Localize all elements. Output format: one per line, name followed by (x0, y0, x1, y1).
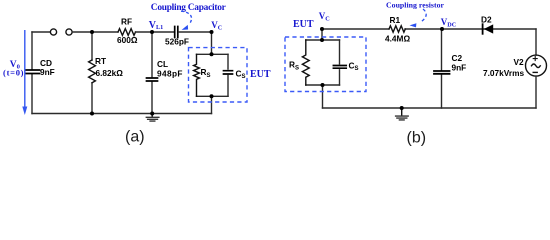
resistor Rs (b) (302, 40, 309, 85)
switch S1 (two open terminals) (50, 29, 56, 35)
svg-text:CL: CL (157, 59, 168, 69)
svg-text:526pF: 526pF (165, 37, 189, 47)
EUT(b) inner loop bottom (306, 84, 340, 86)
wire: RT branch vertical (91, 32, 93, 114)
capacitor C2 (434, 71, 450, 74)
svg-text:7.07kVrms: 7.07kVrms (483, 68, 524, 78)
capacitor Cs (b) (339, 40, 341, 85)
wire: (a) bottom rail (32, 113, 212, 115)
wire: (b) top rail (322, 28, 536, 30)
EUT dashed box (b) (285, 37, 366, 92)
node junction at RT top (90, 30, 94, 34)
capacitor CL (147, 78, 158, 81)
node ground junction (b) (400, 106, 404, 110)
svg-text:Coupling resistor: Coupling resistor (386, 1, 445, 10)
svg-text:6.82kΩ: 6.82kΩ (96, 68, 124, 78)
EUT dashed box (a) (189, 48, 248, 102)
node EUT(a) top junction (210, 52, 214, 56)
coupling resistor callout arrow (dashed) (422, 9, 427, 22)
V2 minus sign (533, 71, 537, 73)
wire: (a) top rail left segment to switch (32, 31, 50, 33)
V2 plus sign (533, 57, 537, 61)
wire: VC branch down to EUT (211, 32, 213, 54)
wire: coupling capacitor to VC (179, 31, 212, 33)
svg-text:RT: RT (95, 56, 106, 66)
svg-text:EUT: EUT (250, 69, 271, 80)
wire: V2 branch bottom (535, 76, 537, 108)
wire: RF to VL1 (136, 31, 153, 33)
capacitor CD (26, 70, 40, 74)
resistor Rs (a) (194, 54, 200, 96)
node VL1 junction (150, 30, 154, 34)
wire: Vc branch down (321, 29, 323, 40)
resistor RT (89, 60, 96, 83)
svg-text:(a): (a) (125, 129, 145, 146)
svg-text:V2: V2 (514, 57, 525, 67)
svg-text:C2: C2 (452, 53, 463, 63)
svg-text:948pF: 948pF (157, 69, 183, 79)
node EUT(a) bottom junction (210, 94, 214, 98)
wire: switch to node A (72, 31, 118, 33)
svg-text:600Ω: 600Ω (117, 35, 138, 45)
capacitor 526pF (coupling capacitor) (175, 27, 178, 38)
node ground junction (a) (150, 112, 154, 116)
capacitor Cs (a) (227, 54, 229, 96)
wire: V2 branch top (535, 29, 537, 55)
wire: EUT bottom down to bottom rail (211, 96, 213, 113)
svg-text:D2: D2 (481, 15, 492, 25)
node EUT(b) bottom junction (321, 83, 325, 87)
resistor RF (118, 29, 135, 36)
EUT(b) inner loop top (306, 39, 340, 41)
EUT inner loop bottom wire (197, 95, 229, 97)
node VDC junction (440, 27, 444, 31)
svg-text:R1: R1 (390, 15, 401, 25)
diode D2 (484, 24, 493, 33)
EUT inner loop top wire (197, 53, 229, 55)
svg-text:Coupling Capacitor: Coupling Capacitor (151, 3, 226, 13)
svg-text:9nF: 9nF (40, 67, 55, 77)
ground (b) (401, 108, 403, 115)
svg-text:RF: RF (121, 17, 132, 27)
svg-text:4.4MΩ: 4.4MΩ (385, 34, 410, 44)
wire: CL branch vertical (151, 32, 153, 114)
wire: (a) left vertical rail (31, 32, 33, 114)
node EUT(b) top junction (320, 38, 324, 42)
resistor R1 (389, 26, 405, 32)
node RT bottom junction (90, 112, 94, 116)
wire: C2 branch (441, 29, 443, 108)
svg-text:EUT: EUT (293, 19, 314, 30)
ground (a) (151, 114, 153, 118)
V2 sine symbol (532, 64, 541, 68)
wire: VL1 to coupling capacitor (152, 31, 174, 33)
wire: (b) bottom rail (323, 107, 537, 109)
source V2 circle (526, 55, 547, 76)
svg-text:(t=0): (t=0) (3, 67, 24, 77)
node VC junction (210, 30, 214, 34)
coupling capacitor callout arrow (dashed) (181, 11, 192, 24)
V0 source arrow (blue) (22, 30, 27, 115)
svg-text:(b): (b) (407, 130, 427, 147)
node VC(b) junction (320, 27, 324, 31)
wire: EUT(b) bottom to rail (322, 85, 324, 108)
svg-text:9nF: 9nF (452, 63, 467, 73)
